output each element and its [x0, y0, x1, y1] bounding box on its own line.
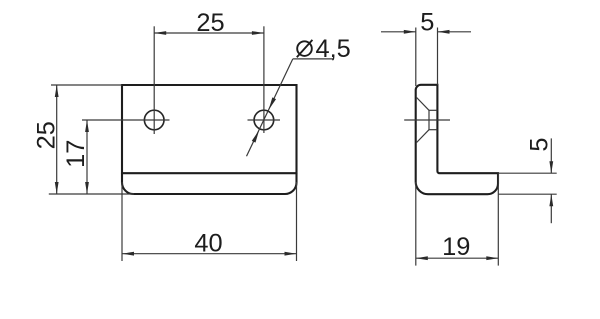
hole H2 horizontal centerline [248, 119, 281, 121]
leader diagonal through hole H2 [247, 59, 293, 156]
hole H1 (left, Ø4,5) [144, 110, 164, 130]
dimension 19 line [416, 257, 499, 259]
dimension 17 arrow up [85, 120, 89, 132]
extension line for 5 (thickness) left [415, 28, 417, 87]
extension line for right 5 top [499, 172, 557, 174]
dimension 5 right tail [438, 31, 472, 33]
extension line for 19 right [497, 174, 499, 266]
dimension 25 height arrow up [55, 85, 59, 97]
dimension 17 line [86, 120, 88, 194]
hole H2 (right, Ø4,5) [254, 110, 274, 130]
leader shoulder under Ø4,5 [293, 58, 333, 60]
dimension 25 (height) line [56, 85, 58, 194]
hole bore top edge [429, 109, 437, 111]
extension line for 40 right [296, 182, 298, 261]
front view: bracket face outline [122, 85, 297, 194]
hole H2 vertical centerline / extension for dim 25 [263, 26, 265, 133]
extension line for 5 (thickness) right [437, 28, 439, 85]
dimension 40 line [122, 253, 297, 255]
dimension right 5 arrow up-pointing [549, 194, 553, 206]
leader arrow upper (into circle) [269, 97, 276, 110]
dimension 5 arrow left-pointing [438, 30, 450, 34]
hole H1 horizontal centerline / extension for dim 17 [82, 119, 170, 121]
dimension 19 arrow right [486, 256, 498, 260]
extension line for 19 left [415, 182, 417, 266]
side view: L profile outline [416, 85, 498, 194]
side view hole centerline [404, 119, 450, 121]
svg-text:5: 5 [420, 8, 434, 36]
dimension 25 height arrow down [55, 182, 59, 194]
label Ø4,5 diameter symbol [297, 40, 313, 57]
dimension 25 arrow right [252, 31, 264, 35]
leader arrow lower (into circle) [252, 130, 259, 143]
dimension 25 (hole spacing) line [154, 32, 264, 34]
extension line for right 5 bottom [499, 193, 557, 195]
countersink upper cone edge [417, 98, 429, 111]
extension line bottom-left (part bottom edge extended) [49, 193, 134, 195]
hole H1 vertical centerline / extension for dim 25 [153, 26, 155, 134]
extension line for 40 left [121, 182, 123, 261]
dimension 5 arrow right-pointing [404, 30, 416, 34]
dimension 19 arrow left [416, 256, 428, 260]
svg-text:5: 5 [526, 137, 554, 151]
svg-text:40: 40 [194, 229, 222, 257]
dimension right 5 arrow down-pointing [549, 161, 553, 173]
svg-text:17: 17 [62, 140, 90, 168]
dimension right 5 lower tail [550, 194, 552, 223]
dimension 40 arrow left [122, 252, 134, 256]
dimension 40 arrow right [285, 252, 297, 256]
dimension 5 left tail [381, 31, 416, 33]
svg-text:19: 19 [442, 233, 470, 261]
dimension 25 arrow left [154, 31, 166, 35]
hole bore left edge [428, 110, 430, 129]
svg-text:25: 25 [33, 121, 61, 149]
svg-text:25: 25 [196, 9, 224, 37]
countersink lower cone edge [417, 130, 429, 143]
hole bore bottom edge [429, 129, 437, 131]
extension line top-left (part top edge extended) [51, 84, 122, 86]
front view: bend tangent line [122, 172, 297, 174]
dimension 17 arrow down [85, 182, 89, 194]
dimension right 5 upper tail [550, 138, 552, 173]
